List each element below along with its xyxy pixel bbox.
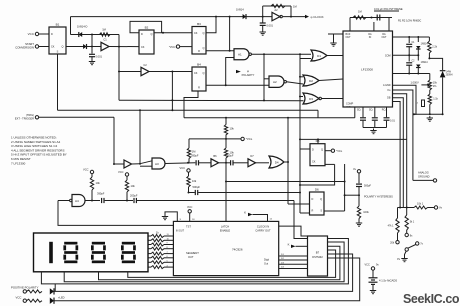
svg-text:74C926: 74C926 xyxy=(232,248,243,252)
svg-text:OUT: OUT xyxy=(346,36,352,39)
resistor R10 xyxy=(27,290,43,293)
svg-text:VCC: VCC xyxy=(16,295,22,299)
wire osc out xyxy=(283,16,305,18)
svg-text:B7: B7 xyxy=(316,251,320,255)
wire digit lines to driver xyxy=(279,255,308,257)
resistor R4 1M xyxy=(271,4,285,7)
wire trigger line xyxy=(39,116,114,118)
svg-text:VCC: VCC xyxy=(83,168,89,172)
wire D3 out to IC xyxy=(322,98,344,100)
svg-text:Q: Q xyxy=(203,32,205,35)
gate A3 AND xyxy=(152,158,165,169)
svg-text:D: D xyxy=(312,198,314,201)
capacitor C8 500uF xyxy=(194,190,196,195)
resistor R17 5k xyxy=(405,215,408,230)
resistor network RN1 segment 1k xyxy=(148,235,151,237)
wire osc feedback right xyxy=(290,6,292,17)
wire bus b xyxy=(393,90,413,180)
svg-text:10k: 10k xyxy=(131,184,136,188)
wire A1 input from B3 xyxy=(206,50,234,52)
wire B2 Q to B3 xyxy=(154,32,192,34)
wire D1 lower in xyxy=(300,58,311,60)
capacitor C13 xyxy=(408,37,410,43)
svg-text:B3: B3 xyxy=(197,22,201,26)
wire switch common xyxy=(405,251,407,257)
gate D4 OR xyxy=(269,156,284,168)
svg-text:D: D xyxy=(312,149,314,152)
svg-text:D3: D3 xyxy=(309,97,313,101)
wire diode row xyxy=(71,34,120,36)
wire rail A xyxy=(119,99,304,102)
diode CR4 1N914 xyxy=(417,37,419,42)
node junction s xyxy=(139,163,141,165)
ground g1 xyxy=(91,60,93,62)
svg-text:DB: DB xyxy=(387,97,391,100)
svg-text:7 LF13300: 7 LF13300 xyxy=(11,161,26,165)
battery BT1 xyxy=(369,277,378,279)
node junction ad xyxy=(408,36,410,38)
svg-text:500μF: 500μF xyxy=(193,185,201,189)
resistor R12 2.2k xyxy=(428,37,430,41)
gate D2 OR xyxy=(303,75,319,86)
svg-text:COM: COM xyxy=(385,54,391,57)
svg-text:10k: 10k xyxy=(96,181,101,185)
svg-text:ANALOG: ANALOG xyxy=(418,171,429,175)
capacitor C3 0.001 xyxy=(262,17,264,23)
wire x344 vertical xyxy=(344,164,346,211)
svg-text:R: R xyxy=(198,50,200,53)
gate A2 NAND xyxy=(269,76,284,87)
inverter B6 xyxy=(211,159,219,167)
svg-text:D1: D1 xyxy=(317,54,321,58)
wire zener down xyxy=(442,77,444,114)
svg-text:SEGMENT: SEGMENT xyxy=(186,251,199,255)
svg-text:1M: 1M xyxy=(358,10,362,14)
wire C2 out to B4 xyxy=(149,71,192,73)
svg-text:B2: B2 xyxy=(145,25,149,29)
svg-text:Q: Q xyxy=(320,198,322,201)
diode VR1 zener xyxy=(440,71,446,77)
svg-text:D2: D2 xyxy=(309,79,313,83)
wire vert x140 xyxy=(139,110,141,163)
svg-text:VCC: VCC xyxy=(28,32,35,36)
svg-text:1M: 1M xyxy=(102,28,106,32)
svg-text:D: D xyxy=(141,33,143,36)
node junction rail A xyxy=(263,99,265,101)
node junction v xyxy=(225,138,227,140)
svg-text:CK: CK xyxy=(141,46,145,49)
wire digit loop 2 xyxy=(64,242,344,282)
IC U2 74C926 xyxy=(173,221,278,275)
svg-text:10k: 10k xyxy=(230,151,235,155)
svg-text:0.01 μF POLYSTYRENE: 0.01 μF POLYSTYRENE xyxy=(374,7,403,11)
wire rail y200 right xyxy=(137,200,294,202)
node junction i xyxy=(262,16,264,18)
switch S2 range xyxy=(405,248,408,251)
wire bus d xyxy=(393,98,404,208)
IC U1 LF13300 xyxy=(343,31,393,107)
svg-text:COMP: COMP xyxy=(346,103,354,106)
ground g3 at IC pin1 xyxy=(328,33,343,35)
svg-text:POSITIVE POLARITY: POSITIVE POLARITY xyxy=(11,285,39,289)
node VB terminal xyxy=(428,207,435,209)
node junction g xyxy=(118,71,120,73)
node junction t xyxy=(187,162,189,164)
node junction b xyxy=(91,46,93,48)
svg-text:A GND: A GND xyxy=(383,84,391,87)
node junction rail192 xyxy=(299,192,301,194)
wire drop x294 to DS xyxy=(294,201,308,239)
wire reset pin to ground xyxy=(164,215,166,217)
svg-text:CK: CK xyxy=(194,32,198,35)
node junction h xyxy=(171,99,173,101)
node junction aj xyxy=(358,194,360,196)
svg-text:2009H: 2009H xyxy=(446,75,453,77)
svg-text:B4: B4 xyxy=(197,62,201,66)
wire LED2 line xyxy=(54,258,360,301)
node VCC terminal 6 xyxy=(188,210,191,213)
svg-text:1N914: 1N914 xyxy=(421,61,429,64)
wire top clock line xyxy=(71,16,273,18)
flip-flop B2 xyxy=(139,30,154,54)
node junction x xyxy=(91,200,93,202)
node junction q xyxy=(287,117,289,119)
node 9V terminal xyxy=(406,230,408,233)
wire rail C xyxy=(184,117,355,119)
svg-text:SeekIC.com: SeekIC.com xyxy=(403,292,460,306)
node VCL output terminal xyxy=(325,150,331,152)
svg-text:K: K xyxy=(244,211,246,215)
svg-text:B6: B6 xyxy=(213,154,217,158)
node junction a xyxy=(91,34,93,36)
svg-text:ENABLE: ENABLE xyxy=(220,228,231,232)
svg-text:47k 1: 47k 1 xyxy=(388,225,395,228)
resistor R6 10k xyxy=(224,148,227,158)
inverter A2 osc xyxy=(272,12,280,20)
node PHI POLARITY tap xyxy=(236,70,241,73)
diode CR3 1N914 xyxy=(243,14,246,19)
svg-text:0.01: 0.01 xyxy=(390,120,395,123)
node VCC input terminal xyxy=(35,32,38,35)
capacitor C15 trim xyxy=(422,100,425,107)
resistor R14 1.1k xyxy=(429,90,431,94)
svg-text:R: R xyxy=(312,210,314,213)
svg-text:A4: A4 xyxy=(75,199,79,203)
wire D2 out to IC xyxy=(319,79,343,81)
capacitor C9 polystyrene xyxy=(376,15,378,21)
ground g8 xyxy=(372,289,374,291)
node LED2 terminal xyxy=(23,299,26,302)
svg-text:GROUND: GROUND xyxy=(418,174,430,178)
node junction m xyxy=(299,76,301,78)
gate A4 NAND xyxy=(72,195,85,207)
wire comp out stub xyxy=(354,107,356,118)
svg-text:VCC: VCC xyxy=(365,263,370,266)
display digit 8 c xyxy=(122,242,135,245)
wire D5 lower out xyxy=(325,163,335,165)
svg-text:K: K xyxy=(288,243,290,247)
node VCL terminal xyxy=(189,138,241,140)
svg-text:POLARITY: POLARITY xyxy=(242,73,255,77)
wire rail y192 right xyxy=(189,192,195,194)
node VR terminal xyxy=(357,170,360,173)
svg-text:5k 1: 5k 1 xyxy=(410,221,415,224)
svg-text:CK: CK xyxy=(51,46,55,49)
wire B1 Q to inverter xyxy=(66,46,101,48)
node K2 input arrow xyxy=(291,245,296,248)
wire D4 out bend down xyxy=(284,161,288,163)
wire carry out stub xyxy=(279,226,308,236)
node junction c xyxy=(118,46,120,48)
node junction y xyxy=(126,200,128,202)
flip-flop D6 xyxy=(310,192,325,215)
svg-text:D4: D4 xyxy=(275,160,279,164)
gate D3 OR xyxy=(303,93,319,104)
svg-text:CARRY OUT: CARRY OUT xyxy=(255,228,271,232)
node junction af xyxy=(408,73,410,75)
inverter D7 xyxy=(248,159,256,167)
node junction ae xyxy=(408,54,410,56)
capacitor C2 0.001 xyxy=(89,53,95,55)
resistor R8 10k xyxy=(126,176,128,180)
wire comparator feedback xyxy=(300,138,407,140)
wire range rail xyxy=(398,207,415,209)
resistor R11 xyxy=(27,299,43,302)
display DS1 box xyxy=(34,233,149,272)
gate A1 NAND xyxy=(234,49,249,60)
wire to zener xyxy=(429,53,442,70)
svg-text:200μF: 200μF xyxy=(130,194,138,198)
wire B3 Q to top rail xyxy=(206,17,216,33)
svg-text:4 1.5v NiCADS: 4 1.5v NiCADS xyxy=(379,279,397,283)
svg-text:*VCL: *VCL xyxy=(336,149,343,153)
svg-text:R: R xyxy=(198,87,200,90)
svg-text:φ: φ xyxy=(247,69,249,73)
svg-text:1N914: 1N914 xyxy=(236,8,244,12)
resistor R9 10k xyxy=(188,172,190,176)
inverter B8 xyxy=(124,160,132,168)
capacitor C6 390pF xyxy=(101,198,103,203)
svg-text:*VCC: *VCC xyxy=(169,45,176,49)
svg-text:D: D xyxy=(51,33,53,36)
svg-text:VCC: VCC xyxy=(118,170,124,174)
svg-text:10k: 10k xyxy=(192,179,197,183)
capacitor C5 390uF xyxy=(230,160,232,165)
svg-text:500pF: 500pF xyxy=(364,185,372,188)
node junction u xyxy=(225,162,227,164)
node VCC terminal 2 xyxy=(176,45,179,48)
svg-text:OUT: OUT xyxy=(346,107,351,109)
svg-text:1/4W: 1/4W xyxy=(446,72,452,74)
wire osc cap loop xyxy=(350,17,392,19)
node junction e xyxy=(215,16,217,18)
wire latch column xyxy=(225,158,227,221)
wire rail R2 COM y55.3 xyxy=(393,54,419,56)
svg-text:Digit: Digit xyxy=(264,259,269,262)
wire B4 bottom to rail C xyxy=(184,91,198,118)
capacitor C10 C11 C12 auto-zero xyxy=(362,107,364,117)
wire C2 in xyxy=(119,71,141,73)
potentiometer R13 10k xyxy=(429,74,431,81)
node junction aa xyxy=(344,181,346,183)
svg-text:LATCH: LATCH xyxy=(221,225,229,229)
resistor R5 10k xyxy=(224,125,227,136)
ground g7 xyxy=(358,221,360,223)
wire 9v drop xyxy=(406,208,408,216)
wire rail R3 y73.5 xyxy=(393,73,430,75)
diode LED2 xyxy=(50,298,54,304)
resistor R16 47k xyxy=(397,208,399,219)
node START CONVERSION input terminal xyxy=(35,45,38,48)
wire osc feedback loop left xyxy=(262,6,264,17)
diode CR5 1N914 xyxy=(417,55,419,60)
svg-text:Out: Out xyxy=(264,263,268,266)
diode CR1 1N914 xyxy=(79,32,82,37)
svg-text:CK: CK xyxy=(194,72,198,75)
node junction f xyxy=(229,16,231,18)
wire LED1 line xyxy=(54,254,353,291)
wire hysteresis link xyxy=(345,194,359,196)
svg-text:+LED: +LED xyxy=(58,296,65,300)
wire B1 S to rail xyxy=(57,54,59,110)
node junction ab xyxy=(344,194,346,196)
wire osc feedback top xyxy=(263,5,291,7)
wire digit loop 4 xyxy=(128,250,336,277)
wire A4 reset line xyxy=(58,201,173,226)
resistor R19 1M xyxy=(188,139,190,148)
node 20k terminal xyxy=(396,241,399,244)
wire D-chain drop xyxy=(299,54,301,213)
svg-text:OUT: OUT xyxy=(188,255,194,259)
svg-text:RC2: RC2 xyxy=(382,109,386,112)
wire B2 feedback loop xyxy=(130,21,162,32)
svg-text:Q: Q xyxy=(321,149,323,152)
node EXT TRIGGER terminal xyxy=(35,116,38,119)
wire rail B xyxy=(58,109,319,111)
resistor R7 10k xyxy=(91,174,93,177)
svg-text:390pF: 390pF xyxy=(97,192,105,196)
node junction w xyxy=(225,181,227,183)
gate D1 OR xyxy=(311,50,327,61)
capacitor C4 390uF xyxy=(195,160,197,165)
wire digit loop 1 xyxy=(41,239,348,284)
svg-text:B1: B1 xyxy=(56,22,60,26)
svg-text:VCC: VCC xyxy=(180,166,186,170)
wire rail B drop xyxy=(317,110,319,118)
wire D5 in stub xyxy=(299,138,301,140)
wire ground rail right xyxy=(414,113,443,115)
node junction z xyxy=(188,192,190,194)
svg-text:D6: D6 xyxy=(315,187,319,191)
svg-text:2.2k: 2.2k xyxy=(432,46,437,49)
svg-text:A3: A3 xyxy=(155,162,159,166)
flip-flop B3 xyxy=(192,27,206,55)
node battery terminal xyxy=(371,267,374,270)
svg-text:Q: Q xyxy=(203,72,205,75)
node K clock input xyxy=(248,213,253,216)
node VCC terminal 5 xyxy=(187,169,190,172)
wire D5 loop to x300 xyxy=(300,164,335,185)
ground g5 xyxy=(429,116,431,118)
display digit 8 b xyxy=(92,242,105,245)
wire bus agnd xyxy=(393,85,417,114)
diode LED1 xyxy=(50,288,54,294)
inverter C1 xyxy=(101,42,109,50)
wire A2 out xyxy=(287,82,304,84)
svg-text:100k: 100k xyxy=(363,211,369,214)
svg-text:Q: Q xyxy=(62,46,64,49)
ground g4 xyxy=(373,129,375,131)
wire D7 out xyxy=(256,162,269,164)
node junction d xyxy=(162,32,164,34)
wire B6 out xyxy=(219,162,231,164)
svg-text:1M: 1M xyxy=(192,150,196,154)
svg-text:LF13300: LF13300 xyxy=(361,68,373,72)
node junction ai xyxy=(399,207,401,209)
svg-text:0.001: 0.001 xyxy=(96,55,103,59)
wire digit loop 3 xyxy=(99,246,340,279)
svg-text:OUT: OUT xyxy=(381,36,387,39)
resistor R3 1M xyxy=(100,33,111,36)
svg-text:CONVERSION: CONVERSION xyxy=(15,46,34,50)
svg-text:EXT - TRIGGER: EXT - TRIGGER xyxy=(15,116,34,120)
node junction ah xyxy=(429,113,431,115)
wire A4 out xyxy=(85,200,100,202)
node VCC terminal 3 xyxy=(90,170,93,173)
svg-text:CK: CK xyxy=(312,161,316,164)
node VCC terminal 4 xyxy=(125,173,128,176)
node junction ac xyxy=(371,17,373,19)
svg-text:IN: IN xyxy=(369,36,372,39)
capacitor C14 xyxy=(408,55,410,61)
svg-text:IN OUT: IN OUT xyxy=(176,230,185,233)
ground g2 xyxy=(262,30,264,32)
svg-text:φ CLOCK: φ CLOCK xyxy=(311,15,324,19)
node junction l xyxy=(299,53,301,55)
svg-text:0.001: 0.001 xyxy=(267,24,274,28)
resistor R15 10k xyxy=(414,206,428,209)
resistor R1 1M xyxy=(353,16,366,19)
wire rail R1 y37 xyxy=(393,36,430,38)
svg-text:R1 R2 1/2% RN60C: R1 R2 1/2% RN60C xyxy=(398,19,421,23)
svg-text:Q: Q xyxy=(203,47,205,50)
ground g6 xyxy=(404,257,406,259)
svg-text:A2: A2 xyxy=(273,80,277,84)
svg-text:1N914-D: 1N914-D xyxy=(77,25,88,29)
wire rail y181 to x344 xyxy=(226,181,345,183)
svg-text:CLOCK IN: CLOCK IN xyxy=(257,225,269,229)
svg-text:C2: C2 xyxy=(143,63,147,67)
node junction k xyxy=(263,53,265,55)
node junction ag xyxy=(428,57,430,59)
svg-text:C1: C1 xyxy=(103,38,107,42)
display digit 8 a xyxy=(64,242,77,245)
capacitor C7 200uF xyxy=(133,198,135,203)
wire D3 top in xyxy=(300,96,303,98)
wire B4 Q to A2 and A1 xyxy=(206,84,269,86)
wire right bend down xyxy=(118,35,120,101)
svg-text:390μF: 390μF xyxy=(191,154,199,158)
svg-text:D7: D7 xyxy=(250,154,254,158)
diode CR2 xyxy=(83,44,86,49)
svg-text:DS75492: DS75492 xyxy=(312,256,323,259)
svg-text:A2: A2 xyxy=(274,8,278,12)
wire D5 top stub xyxy=(317,139,319,143)
IC U3 DS75492 xyxy=(308,236,328,276)
node junction p xyxy=(225,117,227,119)
node LED1 terminal xyxy=(23,290,26,293)
svg-text:A1: A1 xyxy=(238,53,242,57)
